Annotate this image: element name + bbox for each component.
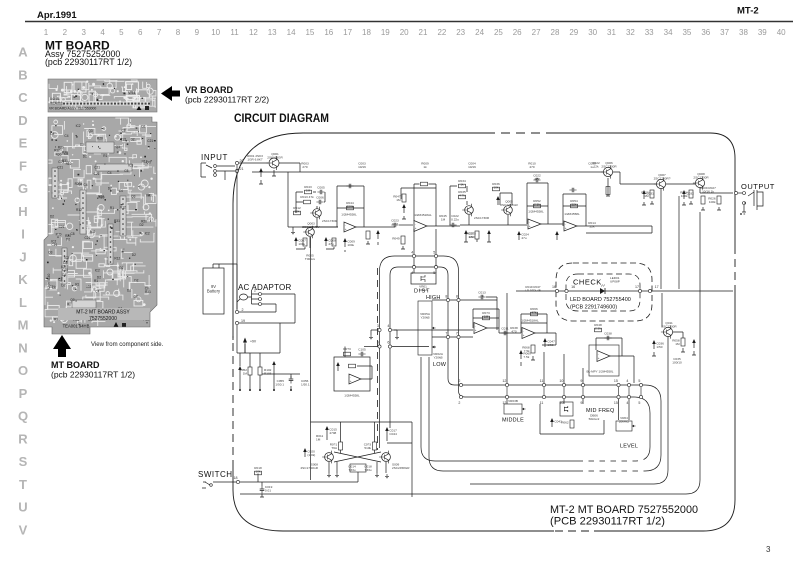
node 15b [433,265,437,274]
transistor Q010 [379,451,390,464]
node 4c [387,324,391,331]
wire IC3b feedback [473,309,499,328]
svg-text:270: 270 [302,165,307,169]
bus nodes lower [458,395,462,405]
svg-text:K: K [18,272,28,287]
svg-text:4.7k: 4.7k [459,194,465,198]
svg-text:2.2k: 2.2k [534,203,540,207]
svg-text:19: 19 [381,28,390,37]
svg-text:18: 18 [234,476,238,480]
resistor R012 [293,206,301,215]
svg-text:MT-2 MT BOARD ASSY: MT-2 MT BOARD ASSY [76,310,130,316]
svg-text:1M: 1M [243,372,248,376]
svg-text:M: M [18,318,29,333]
svg-text:Battery: Battery [207,289,221,294]
transistor Q005 [500,200,518,217]
header rule [25,21,793,23]
svg-text:+: + [598,356,600,360]
svg-text:R0?3: R0?3 [343,347,351,351]
svg-text:C8: C8 [124,169,128,173]
svg-text:17: 17 [635,285,639,289]
resistor R038 [510,326,518,334]
svg-text:D2: D2 [83,155,87,159]
svg-text:7527552000: 7527552000 [89,316,117,322]
svg-text:94HB: 94HB [50,97,60,101]
svg-text:47P: 47P [534,177,540,181]
svg-text:DIST: DIST [414,289,431,295]
svg-text:Q3: Q3 [131,195,135,199]
svg-text:R31: R31 [98,195,104,199]
svg-text:C4: C4 [83,183,87,187]
wire input to board [217,166,235,180]
svg-text:IC2: IC2 [51,240,56,244]
svg-text:(pcb 22930117RT 1/2): (pcb 22930117RT 1/2) [51,370,135,380]
capacitor C018 [569,188,576,193]
LED D01 [600,285,605,295]
wire dist stubs [414,229,436,273]
svg-text:37: 37 [720,28,729,37]
capacitor C024 [517,231,529,240]
svg-text:R12: R12 [142,159,148,163]
wire top rail A [279,163,300,172]
svg-text:C: C [18,90,28,105]
svg-text:Apr.1991: Apr.1991 [37,10,77,21]
svg-text:12: 12 [502,379,506,383]
wire input rail [239,162,268,164]
node 7a [445,331,449,338]
svg-text:1M: 1M [644,194,649,198]
svg-text:+9V: +9V [250,340,257,344]
capacitor C001 [259,168,263,177]
svg-text:47u: 47u [521,236,526,240]
svg-text:C21: C21 [94,172,100,176]
svg-text:29: 29 [569,28,578,37]
svg-text:P: P [19,386,28,401]
wire bundle outer [380,256,651,461]
svg-text:OUTPUT: OUTPUT [741,182,775,191]
wire x668 drop [470,337,668,484]
svg-text:D: D [18,113,27,128]
resistor R037 [466,231,479,239]
svg-text:2: 2 [458,401,460,405]
svg-text:10: 10 [559,379,563,383]
svg-text:(1.0k): (1.0k) [307,453,315,457]
ground rt1 [642,201,654,205]
svg-text:16: 16 [571,285,575,289]
resistor R048b [594,323,602,332]
node 8a [445,294,449,301]
wire main vertical from input [236,165,238,309]
svg-text:25: 25 [494,28,503,37]
resistor R035 [458,190,466,199]
svg-text:MT-2 MT BOARD 7527552000: MT-2 MT BOARD 7527552000 [550,504,698,516]
svg-text:VR03B: VR03B [508,399,518,403]
svg-text:B: B [18,67,27,82]
wire q7 drop [660,189,662,289]
resistor R020b [606,187,610,195]
svg-text:C8: C8 [122,129,126,133]
svg-text:24: 24 [475,28,484,37]
svg-text:2SC1730R: 2SC1730R [693,176,709,180]
svg-text:22k: 22k [572,203,577,207]
resistor R045 [439,214,447,222]
svg-text:40: 40 [777,28,786,37]
svg-text:+: + [529,224,531,228]
wire IC4a feedback [521,314,547,333]
svg-text:1M: 1M [484,315,489,319]
wire t11 riser [661,293,663,327]
ruler numbers [44,28,786,37]
node 16a [552,285,559,292]
output jack J2 [738,190,763,214]
op-amp IC2a [528,219,541,229]
svg-text:N: N [18,340,27,355]
check stub labels [525,285,541,292]
svg-text:1k: 1k [460,183,464,187]
svg-text:7: 7 [445,331,447,335]
svg-text:LR 97DL4B: LR 97DL4B [525,288,541,292]
svg-text:J: J [19,249,26,264]
svg-text:4: 4 [387,324,389,328]
svg-text:19: 19 [241,319,245,323]
svg-text:D2: D2 [61,284,65,288]
ground power [239,389,261,391]
transistor Q004 [462,204,473,217]
wire power bus [237,323,280,353]
svg-text:R12: R12 [114,256,120,260]
svg-text:1: 1 [44,28,49,37]
svg-text:0.47: 0.47 [392,222,398,226]
ff emitter box [350,464,366,472]
pot wiper low [432,346,436,349]
svg-text:7: 7 [157,28,162,37]
svg-text:F: F [19,158,27,173]
svg-text:16: 16 [552,285,556,289]
svg-text:D2: D2 [127,288,131,292]
node 8b [456,294,460,301]
svg-text:VR BOARD ASSY 7527553000: VR BOARD ASSY 7527553000 [49,107,96,111]
MT board outline [233,133,486,340]
svg-text:1/2M4558L: 1/2M4558L [528,210,544,214]
svg-text:34: 34 [664,28,673,37]
svg-text:C4: C4 [58,278,62,282]
svg-text:TEA001 94HB: TEA001 94HB [63,324,90,329]
resistor R025 [701,196,705,204]
svg-text:D2: D2 [108,186,112,190]
wire mid link [460,224,527,226]
svg-text:10k: 10k [469,235,474,239]
svg-text:(pcb 22930117RT 1/2): (pcb 22930117RT 1/2) [45,57,132,67]
DIST pot [411,273,436,292]
svg-text:SWITCH: SWITCH [198,470,233,479]
resistor R036 [492,182,500,191]
svg-text:12k: 12k [594,165,599,169]
wire t11 [652,332,696,356]
capacitor C036 [652,340,664,349]
svg-text:D2: D2 [80,143,84,147]
svg-text:R103: R103 [264,372,272,376]
capacitor C011 [501,326,508,335]
svg-text:D2: D2 [140,223,144,227]
svg-text:4: 4 [100,28,105,37]
VR board arrow [161,86,180,101]
svg-text:2SC1730GR: 2SC1730GR [300,466,318,470]
MIDDLE pot [504,404,526,414]
MT board photo [44,117,158,334]
svg-text:4: 4 [626,401,628,405]
svg-text:1M: 1M [675,342,680,346]
svg-text:8: 8 [456,294,458,298]
svg-text:5: 5 [638,379,640,383]
capacitor C032 [682,190,694,199]
svg-text:R062: R062 [561,421,569,425]
svg-text:Q3: Q3 [116,145,120,149]
wire IC1a feedback [337,186,364,227]
resistor R063p [258,367,262,375]
capacitor C020 [303,448,315,457]
input jack J1 [201,163,216,177]
9V battery box [203,268,224,314]
capacitor C028 [496,196,500,205]
svg-text:32: 32 [626,28,635,37]
svg-text:D2: D2 [66,238,70,242]
svg-text:View from component side.: View from component side. [91,342,164,348]
svg-text:C011: C011 [501,326,508,330]
svg-text:2: 2 [254,289,256,293]
node 21 [235,167,243,173]
svg-text:100k: 100k [681,194,688,198]
op-amp IC2b [564,221,577,231]
wire check [516,290,733,292]
transistor Q006 [601,161,617,178]
svg-text:IC2: IC2 [64,256,69,260]
node out pin [734,191,737,194]
wire IC4b feedback [596,338,622,356]
svg-text:33: 33 [645,28,654,37]
capacitor C010 [346,184,353,189]
wire bus risers [507,293,583,383]
AC adaptor jack [237,289,262,306]
wire r018 [258,474,264,498]
capacitor C055 [289,376,294,384]
svg-text:R20: R20 [56,233,62,237]
wire low [432,336,473,338]
svg-text:10: 10 [211,28,220,37]
svg-text:20: 20 [240,159,244,163]
IC4b box [589,345,619,376]
svg-text:C038: C038 [604,331,612,335]
ground q3 [291,230,295,234]
svg-text:3: 3 [81,28,86,37]
wire power right [262,370,300,389]
svg-text:D2: D2 [134,294,138,298]
dash gaps overlay [583,458,644,473]
svg-text:11: 11 [540,379,544,383]
node 6 [387,341,391,348]
svg-text:17: 17 [343,28,352,37]
resistor R034 [458,179,466,188]
resistor R016 [366,231,370,239]
resistor R015 [332,238,336,246]
svg-text:VR BOARD: VR BOARD [185,85,234,95]
svg-text:D2: D2 [120,266,124,270]
svg-text:4: 4 [626,379,628,383]
transistor Q007 [654,173,671,190]
op-amp IC1a [344,222,356,232]
svg-text:R: R [18,431,28,446]
svg-text:U: U [18,500,27,515]
svg-text:C8: C8 [145,286,149,290]
capacitor C038 [604,331,612,340]
wire to IC1b [399,224,413,226]
svg-text:1M: 1M [306,189,311,193]
resistor R014 [303,238,307,246]
svg-text:100u: 100u [347,243,354,247]
resistor R068 [522,345,535,353]
svg-text:MIDDLE: MIDDLE [502,418,524,424]
svg-text:UP08P: UP08P [610,280,620,284]
svg-text:10k: 10k [256,470,261,474]
svg-text:15: 15 [614,401,618,405]
svg-text:R1: R1 [110,206,114,210]
svg-text:TEA001: TEA001 [50,102,63,106]
svg-text:2.2k: 2.2k [595,327,601,331]
resistor R066 [530,307,538,316]
node 16b [565,285,575,292]
mid freq box [540,402,604,434]
wire high [432,299,497,301]
svg-text:18: 18 [362,28,371,37]
svg-text:11: 11 [230,28,239,37]
svg-text:47k: 47k [532,311,537,315]
svg-text:10k: 10k [295,210,300,214]
svg-text:C21: C21 [121,138,127,142]
svg-text:C8: C8 [71,232,75,236]
node 19 [235,319,245,325]
svg-text:D2: D2 [50,215,54,219]
capacitor C025 [464,230,476,239]
capacitor C019 [260,485,273,494]
wire bus stubs [507,387,641,395]
ground output [740,213,742,215]
svg-text:+: + [345,227,347,231]
wire q3 emitter [310,237,312,422]
svg-text:470: 470 [529,165,534,169]
wire q2q3 [302,206,338,248]
wire ff left leg [310,422,312,480]
wire power drops [240,353,260,389]
node 17b [648,285,658,292]
svg-text:0.22u: 0.22u [451,218,459,222]
resistor R104 [349,364,356,368]
svg-text:7: 7 [456,331,458,335]
row letters [18,45,29,538]
resistor R062 [561,420,574,428]
capacitor C047 [402,204,406,213]
op-amp IC4b [597,351,610,362]
svg-text:CHECK: CHECK [573,278,602,287]
svg-text:1k: 1k [423,165,427,169]
svg-text:12: 12 [502,401,506,405]
svg-text:R20: R20 [146,194,152,198]
svg-text:T33u: T33u [348,468,355,472]
svg-text:Y20kB: Y20kB [420,316,429,320]
svg-text:T: T [19,477,27,492]
CHECK board inner outline [566,274,640,311]
CHECK board outline [556,263,652,321]
capacitor C054 [272,361,276,370]
svg-text:Q3: Q3 [48,251,52,255]
resistor R043 [304,185,312,194]
MID FREQ jfet [560,402,573,416]
svg-text:15: 15 [305,28,314,37]
wire stage1 bias [296,192,325,213]
svg-text:R1: R1 [94,279,98,283]
capacitor C005 [317,185,325,194]
svg-text:100u: 100u [298,242,305,246]
resistor R054 [570,199,578,208]
wire battery leads [213,264,237,310]
svg-text:2SC1730R: 2SC1730R [474,216,490,220]
svg-text:O: O [18,363,28,378]
wire q8 drop [678,196,680,289]
+9V arrow [243,338,257,354]
svg-text:15: 15 [614,379,618,383]
svg-text:D2: D2 [134,279,138,283]
svg-text:10/16: 10/16 [358,165,366,169]
svg-text:R1: R1 [75,282,79,286]
transistor Q011 [661,321,677,338]
wire q4q5 [450,186,512,225]
wire low filter [345,347,372,380]
ground rt3 [701,207,721,210]
op-amp IC3a [349,374,361,384]
svg-text:1M: 1M [396,198,401,202]
svg-text:C4: C4 [107,171,111,175]
capacitor C031 [642,190,654,199]
svg-text:1M: 1M [316,438,321,442]
svg-text:T33u: T33u [364,468,371,472]
svg-text:G: G [18,181,28,196]
svg-text:12: 12 [249,28,258,37]
resistor R115 [364,442,377,450]
capacitor C026 [555,231,559,240]
svg-text:5: 5 [377,341,379,345]
svg-text:1/50.1: 1/50.1 [275,383,284,387]
svg-text:47u: 47u [328,242,333,246]
svg-text:2: 2 [242,308,244,312]
svg-text:C044: C044 [389,432,397,436]
svg-text:C4: C4 [62,273,66,277]
svg-text:Q3: Q3 [70,298,74,302]
svg-text:1/2M4558L: 1/2M4558L [564,212,580,216]
transistor Q002 [310,207,321,220]
svg-text:Y20kB: Y20kB [433,356,442,360]
svg-text:V: V [19,523,28,538]
wire ff grounds [327,473,331,477]
ground rt2 [682,201,693,205]
flipflop rail [311,421,413,423]
resistor R013 [300,195,314,204]
resistor R014b [588,221,596,229]
wire pot lower bundle [421,357,583,461]
capacitor C014 [487,230,491,239]
transistor Q001 [267,152,284,170]
resistor R073 [482,311,490,320]
svg-text:S: S [19,454,28,469]
svg-text:R12: R12 [54,149,60,153]
svg-text:9: 9 [195,28,200,37]
